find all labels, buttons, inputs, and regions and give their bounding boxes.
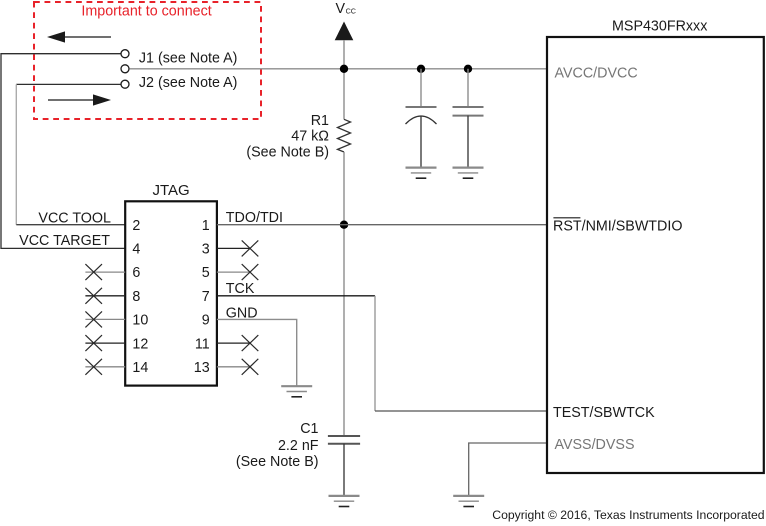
JTAG connector box	[125, 201, 217, 385]
svg-text:2: 2	[132, 218, 140, 234]
svg-text:RST/NMI/SBWTDIO: RST/NMI/SBWTDIO	[553, 219, 682, 235]
ground below ceramic cap	[453, 168, 484, 179]
capacitor polarized (bulk)	[406, 69, 437, 168]
no-connect X pin11	[242, 335, 259, 351]
no-connect X pin5	[242, 264, 259, 280]
junction dot cap1	[417, 65, 425, 73]
svg-text:TDO/TDI: TDO/TDI	[226, 210, 283, 226]
svg-text:C1: C1	[300, 421, 318, 437]
ground below pin9	[281, 386, 312, 397]
wire GND pin9	[217, 319, 297, 385]
stub pin5	[217, 271, 251, 273]
ground below AVSS	[453, 496, 484, 507]
wire J2 to JTAG pin 2	[16, 224, 125, 226]
label C1 value	[236, 421, 319, 470]
stub pin11	[217, 342, 251, 344]
junction dot cap2	[464, 65, 472, 73]
ground below polarized cap	[406, 168, 437, 179]
svg-text:2.2 nF: 2.2 nF	[278, 438, 319, 454]
stub pin10	[85, 318, 125, 320]
svg-text:47 kΩ: 47 kΩ	[291, 129, 329, 145]
svg-text:10: 10	[132, 313, 148, 329]
svg-text:4: 4	[132, 242, 140, 258]
wire AVSS to ground	[469, 443, 547, 496]
important-to-connect dashed highlight box	[34, 2, 261, 119]
svg-text:(See Note B): (See Note B)	[246, 144, 329, 160]
MSP430FRxxx device box	[547, 37, 764, 473]
connector pin circle J2	[121, 80, 129, 88]
stub pin12	[85, 342, 125, 344]
wire TDO/TDI to RST/NMI/SBWTDIO	[217, 224, 547, 226]
svg-text:JTAG: JTAG	[153, 182, 190, 199]
wire Vcc net to AVCC/DVCC	[130, 68, 547, 70]
no-connect X pin12	[85, 335, 102, 351]
connector pin circle J1	[121, 50, 129, 58]
arrow left (current direction)	[47, 31, 111, 42]
svg-text:MSP430FRxxx: MSP430FRxxx	[612, 18, 707, 34]
svg-text:J1 (see Note A): J1 (see Note A)	[139, 51, 238, 67]
stub pin8	[85, 295, 125, 297]
capacitor C1	[328, 436, 360, 496]
svg-text:14: 14	[132, 360, 148, 376]
svg-text:GND: GND	[226, 306, 258, 322]
svg-text:12: 12	[132, 336, 148, 352]
no-connect X pin10	[85, 311, 102, 327]
stub pin13	[217, 366, 251, 368]
no-connect X pin3	[242, 240, 259, 256]
power Vcc symbol	[335, 1, 356, 69]
connector pin circle middle	[121, 65, 129, 73]
label R1 value	[246, 113, 329, 160]
svg-text:AVSS/DVSS: AVSS/DVSS	[555, 437, 635, 453]
svg-text:V: V	[336, 1, 346, 17]
svg-text:9: 9	[202, 313, 210, 329]
wire J1 jumper to JTAG pin 4	[1, 54, 125, 249]
svg-text:7: 7	[202, 289, 210, 305]
svg-text:J2 (see Note A): J2 (see Note A)	[139, 75, 238, 91]
wire Vcc down to R1	[343, 69, 345, 120]
no-connect X pin14	[85, 359, 102, 375]
svg-text:TEST/SBWTCK: TEST/SBWTCK	[553, 405, 655, 421]
svg-text:3: 3	[202, 242, 210, 258]
junction dot Vcc/R1	[340, 65, 348, 73]
svg-text:11: 11	[195, 336, 210, 352]
arrow right (current direction)	[48, 94, 111, 105]
stub pin14	[85, 366, 125, 368]
no-connect X pin13	[242, 359, 259, 375]
svg-text:(See Note B): (See Note B)	[236, 454, 319, 470]
wire J2 horizontal	[16, 83, 121, 85]
no-connect X pin6	[85, 264, 102, 280]
capacitor ceramic (bypass)	[453, 69, 484, 168]
svg-text:R1: R1	[311, 113, 329, 129]
svg-text:Copyright © 2016, Texas Instru: Copyright © 2016, Texas Instruments Inco…	[492, 508, 764, 522]
svg-text:1: 1	[202, 218, 210, 234]
junction dot TDO/TDI-RST	[340, 221, 348, 229]
wire TCK horizontal	[217, 295, 375, 297]
wire TEST horizontal	[375, 410, 547, 412]
svg-text:6: 6	[132, 265, 140, 281]
svg-text:VCC TOOL: VCC TOOL	[38, 211, 111, 227]
svg-text:VCC TARGET: VCC TARGET	[19, 233, 110, 249]
svg-text:5: 5	[202, 265, 210, 281]
no-connect X pin8	[85, 288, 102, 304]
wire J2 vertical	[15, 84, 17, 224]
svg-text:Important to connect: Important to connect	[81, 4, 211, 20]
stub pin6	[85, 271, 125, 273]
stub pin3	[217, 247, 251, 249]
wire TCK vertical	[374, 296, 376, 411]
svg-text:8: 8	[132, 289, 140, 305]
svg-text:CC: CC	[346, 7, 356, 16]
svg-text:13: 13	[194, 360, 210, 376]
resistor R1	[338, 119, 351, 152]
ground below C1	[329, 496, 360, 507]
svg-text:AVCC/DVCC: AVCC/DVCC	[555, 65, 638, 81]
JTAG pin numbers right	[194, 218, 210, 376]
overbar RST	[553, 217, 580, 219]
JTAG pin numbers left	[132, 218, 148, 376]
wire R1 down to C1	[343, 152, 345, 436]
svg-text:TCK: TCK	[226, 281, 255, 297]
